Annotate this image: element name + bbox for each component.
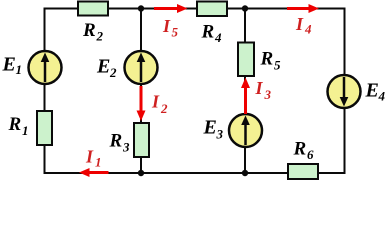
wire left [44,8,46,175]
svg-text:4: 4 [214,30,222,45]
svg-text:4: 4 [304,22,312,37]
current arrow I5 [154,4,188,40]
wire middle branch node1 [140,9,142,174]
wire right [344,8,346,175]
svg-text:E: E [2,54,16,76]
svg-text:5: 5 [274,58,281,73]
node dot top-1 [138,5,144,11]
svg-text:R: R [260,49,274,70]
source E2 [96,51,158,84]
resistor R3 [109,123,150,157]
svg-text:2: 2 [160,101,168,116]
node dot bottom-1 [138,170,144,176]
svg-text:1: 1 [22,123,29,138]
svg-text:3: 3 [122,140,130,155]
resistor R1 [8,111,53,145]
source E1 [2,51,62,84]
svg-text:3: 3 [216,127,224,142]
svg-text:R: R [109,131,123,152]
resistor R2 [78,2,108,44]
current arrow I3 [241,78,272,115]
svg-text:3: 3 [264,87,272,102]
wire top [45,8,345,10]
svg-text:4: 4 [378,89,386,104]
svg-text:R: R [201,22,215,43]
svg-text:I: I [151,92,160,112]
source E3 [203,114,263,147]
svg-text:2: 2 [96,29,104,44]
wire bottom [45,172,345,174]
resistor R6 [288,139,318,180]
node dot bottom-2 [242,170,248,176]
node dot top-2 [242,5,248,11]
svg-text:R: R [82,20,96,41]
svg-text:5: 5 [172,25,179,40]
svg-text:R: R [293,139,307,160]
resistor R4 [197,2,227,46]
svg-text:1: 1 [16,62,23,77]
svg-text:E: E [96,56,110,78]
svg-text:I: I [255,78,264,98]
svg-text:1: 1 [95,155,102,170]
current arrow I4 [287,4,319,37]
svg-text:I: I [162,16,171,36]
current arrow I2 [137,86,169,121]
svg-text:E: E [365,80,379,102]
wire middle branch node2 [244,9,246,174]
svg-text:R: R [8,114,22,135]
svg-text:6: 6 [307,147,314,162]
svg-text:2: 2 [109,65,117,80]
source E4 [328,75,386,108]
resistor R5 [238,43,281,77]
svg-text:I: I [295,14,304,34]
svg-text:E: E [203,117,217,139]
svg-text:I: I [85,147,94,167]
current arrow I1 [79,147,109,178]
